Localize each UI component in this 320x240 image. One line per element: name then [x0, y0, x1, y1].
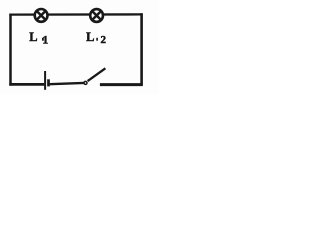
- label L1: [29, 30, 48, 47]
- wire right: [140, 13, 143, 85]
- wire top: [9, 13, 142, 16]
- svg-text:L: L: [86, 30, 94, 44]
- lamp L2 cross: [92, 11, 101, 20]
- label L2: [86, 30, 106, 46]
- svg-text:1: 1: [42, 33, 48, 47]
- lamp L1 cross: [37, 11, 46, 20]
- svg-text:2: 2: [101, 34, 107, 46]
- wire left: [9, 14, 12, 86]
- battery cell: short thick plate: [47, 79, 50, 86]
- lamp L1 circle: [35, 9, 48, 22]
- wire bottom-right (switch to corner): [100, 83, 143, 86]
- wire bottom-left (corner to battery): [9, 83, 44, 86]
- switch pivot contact: [84, 81, 87, 84]
- switch lever (open): [88, 68, 106, 81]
- lamp L2 circle: [90, 9, 103, 22]
- svg-text:L: L: [29, 30, 37, 44]
- wire battery to switch: [50, 83, 84, 84]
- battery cell: long plate: [44, 71, 46, 90]
